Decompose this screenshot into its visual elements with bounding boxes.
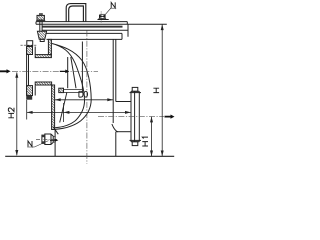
drain flange bottom block [42,141,45,144]
inlet gasket verticals bottom segment [32,86,34,96]
basket ring lower line [64,91,83,93]
inlet flange top bolt dashed centerline [21,44,37,46]
inlet flange second line [28,47,30,96]
internal flow arrow at inlet [60,70,70,74]
shell right wall inner [112,39,114,123]
inlet flange face line [26,47,28,96]
outlet flow arrow (external) [165,115,175,119]
label H2 (rotated) [8,108,14,118]
drain flange top block [42,135,45,138]
drain pipe walls [53,135,55,137]
label D0 [79,91,88,97]
baseline (bottom reference line) [5,155,174,157]
basket ring left block [59,88,64,92]
shell right wall below outlet [115,132,117,157]
centerlines [12,31,164,164]
outlet flange top edge [131,90,139,92]
filter bag inner curve [55,45,85,128]
N label (vent) leader [105,8,111,15]
inlet gasket verticals top [32,47,34,55]
inlet gasket verticals bottom [34,86,36,96]
label N (vent) [111,2,115,8]
shell left wall above inlet (hatched) [48,39,51,54]
outlet flange front face [138,91,140,141]
top flange ring lower line [47,38,123,40]
H2 dimension line [16,73,18,156]
H dimension line [161,24,163,156]
eye bolt nut (hatched) [37,15,44,20]
internal cone right diagonal [71,57,76,88]
H1 dimension line [151,117,153,157]
labels drawn as paths [8,2,159,146]
inlet flow arrow (external) [0,69,11,73]
basket ring upper line [64,89,83,91]
vent valve centerline [100,11,102,23]
outlet flange back face [130,91,132,141]
outlet flange top stud [132,87,138,91]
outlet pipe bottom wall [116,131,131,133]
chain dim extension line [63,103,65,122]
dimension lines [15,24,163,156]
drain flow arrow [50,139,58,142]
eye bolt thread ticks [39,13,42,15]
filter bag outer curve [52,44,91,130]
shell right wall outer [115,39,117,101]
inlet flange bottom ring (hatched) [27,86,33,96]
inlet horizontal centerline [12,70,98,72]
eye bolt lower pivot lug (hatched) [37,31,46,39]
outlet pipe top wall [116,101,131,103]
outlet flange middle line [134,91,136,141]
label H1 (rotated) [142,137,148,146]
chain dim left extension line [26,100,28,120]
N drain underline [27,146,34,148]
lid left edge cap [35,22,37,25]
eye bolt pivot pin [40,39,44,41]
internal cone left line [67,57,69,88]
basket hanging diagonal [60,93,67,123]
N vent underline [110,7,116,9]
lid right edge cap [126,22,128,25]
drain hex plug [45,134,53,145]
eye bolt shaft [39,13,41,31]
shell left wall below inlet (hatched) [52,85,55,130]
inlet nozzle top wall (hatched) [35,55,51,58]
skirt left [54,130,56,157]
label H (rotated) [153,88,159,92]
flow arrows [0,69,175,119]
drain flange line 1 [41,135,43,144]
inlet flange bottom bolt [26,96,32,100]
inlet flange top ring (hatched) [27,47,33,55]
vessel vertical centerline [86,31,88,164]
N drain leader [34,141,48,147]
outlet flange bottom washer line [130,139,142,141]
lid gasket thick band [43,26,123,28]
handle left leg outer [66,4,86,22]
top flange right edge [127,24,129,37]
label N (drain) [28,141,32,147]
inlet flange top bolt [27,41,33,46]
top flange right lower line [121,33,123,39]
outlet flange bottom edge [131,141,139,143]
handle inner line [69,6,84,22]
inlet nozzle bottom wall (hatched) [35,82,51,85]
drain centerline [36,139,58,141]
top flange ring upper line [45,32,123,34]
lid lower plate line [43,29,129,31]
bottom dish right curve [112,124,118,132]
chain dimension line [27,111,131,113]
drain flange line 2 [44,135,46,144]
internal standpipe right line [81,42,83,93]
lid plate line 2 [36,23,167,25]
vent valve bowtie [99,15,105,18]
bottom dish left slope [53,127,58,135]
outlet horizontal centerline [98,116,164,118]
lid top plate line 1 [36,21,127,23]
eye bolt washer [36,20,45,21]
vent boss line [98,19,109,21]
outlet flange bottom stud [132,142,138,146]
outlet flange top washer line [130,92,142,94]
D0 dimension line [55,99,113,101]
vent valve base [99,17,107,20]
vent valve top cap [100,13,105,15]
